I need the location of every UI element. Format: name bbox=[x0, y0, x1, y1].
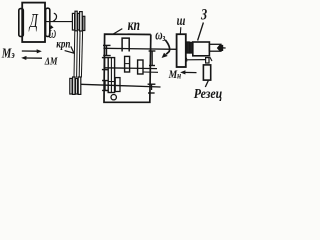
svg-text:Мн: Мн bbox=[168, 68, 182, 81]
svg-text:Резец: Резец bbox=[194, 85, 222, 101]
svg-text:Мэ: Мэ bbox=[1, 45, 15, 60]
svg-text:кп: кп bbox=[128, 18, 141, 35]
svg-text:ΔМ: ΔМ bbox=[44, 57, 58, 68]
svg-text:З: З bbox=[200, 7, 207, 24]
svg-text:ω: ω bbox=[48, 24, 56, 43]
svg-text:Д: Д bbox=[28, 9, 39, 31]
svg-text:крп: крп bbox=[56, 39, 70, 51]
svg-text:ωз: ωз bbox=[155, 27, 166, 43]
svg-text:ш: ш bbox=[177, 13, 186, 29]
